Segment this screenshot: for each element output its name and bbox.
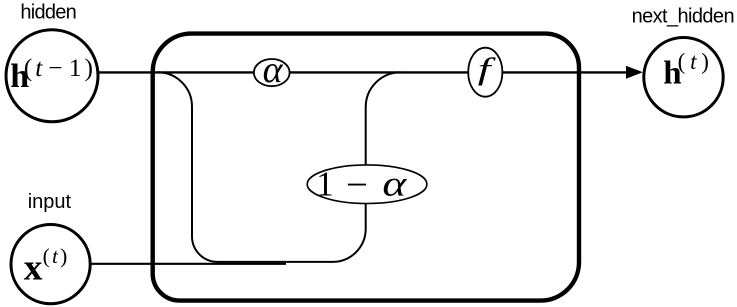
svg-text:α: α	[263, 49, 284, 91]
svg-text:next_hidden: next_hidden	[632, 6, 734, 28]
svg-text:(t): (t)	[43, 244, 68, 268]
svg-text:x: x	[24, 247, 43, 288]
svg-text:(t): (t)	[678, 49, 709, 74]
svg-text:α: α	[382, 164, 407, 204]
svg-text:hidden: hidden	[20, 2, 76, 24]
svg-text:1: 1	[316, 164, 334, 203]
svg-text:input: input	[28, 191, 72, 213]
